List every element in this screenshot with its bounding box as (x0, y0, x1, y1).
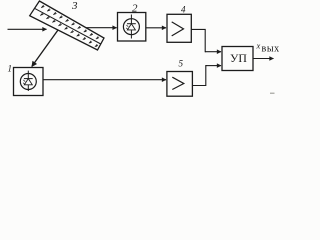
beam splitter 3 (slanted hatched plate) (30, 1, 104, 50)
svg-text:УП: УП (230, 51, 247, 65)
svg-text:x: x (256, 40, 261, 50)
amplifier block 5 (167, 72, 193, 97)
svg-text:1: 1 (8, 64, 13, 74)
wire: block 4 to UP (right, down, right) (191, 29, 206, 51)
wire: input arrow into splitter (8, 28, 47, 30)
photodetector block 2 (118, 13, 146, 42)
svg-text:5: 5 (179, 59, 184, 69)
wire: splitter to block 2 (86, 27, 117, 29)
amplifier-converter block UP (222, 47, 253, 71)
photodetector block 1 (14, 68, 44, 96)
wire: splitter diagonal down to block 1 (32, 30, 58, 67)
wire: block 5 to UP (right, up, right) (192, 66, 206, 86)
svg-text:4: 4 (181, 5, 186, 15)
svg-text:2: 2 (132, 2, 138, 14)
faint page speck bottom right (270, 92, 275, 94)
amplifier block 4 (167, 14, 191, 42)
svg-text:3: 3 (71, 0, 78, 12)
wire: block 2 to block 4 (146, 27, 166, 29)
wire: block 1 to block 5 (43, 79, 166, 81)
svg-text:вых: вых (262, 44, 280, 55)
wire: UP output arrow (253, 58, 274, 60)
